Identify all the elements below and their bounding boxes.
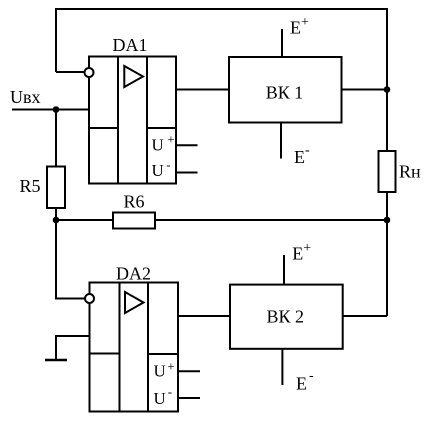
- node A: Uvx junction: [53, 106, 60, 113]
- wire node down to Rn: [386, 90, 388, 152]
- wire DA1 output to BK1: [176, 89, 229, 91]
- wire feedback into DA1 inverting input: [56, 71, 84, 73]
- node D: Rn/R6 junction: [384, 217, 391, 224]
- power E- of BK2: [282, 349, 314, 394]
- svg-text:ВК 2: ВК 2: [266, 307, 304, 327]
- power E- of BK1: [281, 123, 310, 168]
- svg-text:E+: E+: [292, 241, 311, 264]
- pin U+ of DA2: [154, 359, 201, 381]
- svg-text:E-: E-: [296, 369, 314, 394]
- svg-text:Uвх: Uвх: [10, 87, 41, 107]
- svg-text:DA1: DA1: [113, 35, 148, 55]
- node B: R5/R6 junction: [53, 217, 60, 224]
- pin U- of DA2: [154, 384, 201, 408]
- svg-text:R6: R6: [124, 192, 145, 212]
- svg-text:R5: R5: [20, 176, 41, 196]
- wire BK1 output to node: [342, 89, 388, 91]
- ground: [45, 359, 67, 362]
- resistor R5: [20, 167, 66, 209]
- block BK1: [229, 57, 342, 123]
- op-amp DA1: [85, 35, 177, 184]
- wire DA2 output to BK2: [178, 315, 230, 317]
- wire ground to DA2 noninverting input: [56, 336, 90, 360]
- wire input Uvx: [12, 109, 89, 111]
- svg-text:U+: U+: [152, 131, 175, 154]
- resistor Rn (load): [379, 151, 422, 192]
- op-amp DA2: [85, 264, 178, 412]
- wire R6 to Rn node: [155, 219, 387, 221]
- pin U+ of DA1: [152, 131, 198, 154]
- svg-text:ВК 1: ВК 1: [266, 82, 304, 102]
- wire Uvx node to R5: [55, 110, 57, 167]
- svg-text:U+: U+: [154, 359, 175, 381]
- power E+ of BK2: [284, 241, 311, 285]
- pin U- of DA1: [152, 157, 198, 180]
- power E+ of BK1: [282, 15, 309, 57]
- svg-text:E-: E-: [294, 143, 310, 167]
- node C: BK1 output junction: [384, 86, 391, 93]
- block BK2: [230, 285, 343, 349]
- resistor R6: [113, 192, 155, 229]
- wire R5 bottom down to DA2 input: [56, 208, 85, 299]
- wire node to R6: [56, 219, 113, 221]
- svg-text:E+: E+: [290, 15, 309, 38]
- svg-text:U-: U-: [154, 384, 173, 408]
- wire BK2 output: [343, 315, 387, 317]
- wire Rn bottom to BK2 output: [386, 192, 388, 316]
- svg-text:Rн: Rн: [399, 162, 421, 182]
- svg-text:U-: U-: [152, 157, 171, 180]
- svg-text:DA2: DA2: [116, 264, 151, 284]
- wire feedback top: [56, 9, 387, 90]
